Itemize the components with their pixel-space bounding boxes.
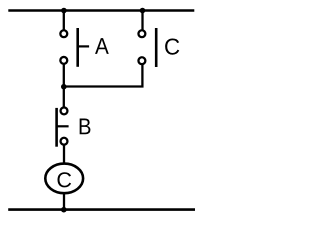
label B xyxy=(80,118,91,134)
contact A (normally-open contact) xyxy=(60,28,89,67)
bottom power rail xyxy=(8,208,195,211)
junction node: coil to bottom rail xyxy=(61,207,67,213)
junction node: top rail to contact C branch xyxy=(140,8,146,14)
wire: top rail down to contact A xyxy=(63,11,65,30)
wire: top rail down to contact C xyxy=(141,11,143,30)
junction node: top rail to contact A branch xyxy=(61,8,67,14)
wire: contact B down to coil xyxy=(63,145,65,165)
top power rail xyxy=(8,9,194,12)
wire: contact A to junction xyxy=(63,64,65,87)
label C (contact) xyxy=(165,38,179,54)
contact C (normally-open relay contact) xyxy=(138,28,156,67)
contact B (normally-closed contact) xyxy=(57,107,69,146)
wire: contact C down and left to junction wire xyxy=(64,64,143,86)
wire: coil down to bottom rail xyxy=(63,193,65,210)
wire: junction down to contact B xyxy=(63,87,65,108)
junction node: A/C branches to contact B xyxy=(61,84,67,90)
label A xyxy=(95,38,109,54)
coil C (relay coil) xyxy=(45,164,83,194)
label C (coil) xyxy=(57,172,71,187)
